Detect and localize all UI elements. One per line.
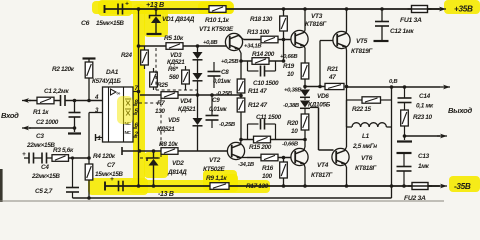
transistor VT5 — [346, 9, 348, 31]
svg-text:1мк: 1мк — [418, 163, 430, 170]
svg-text:КТ819Г: КТ819Г — [351, 48, 373, 55]
wire R14 row — [241, 60, 252, 62]
resistor R21 — [325, 83, 344, 89]
capacitor C9 — [211, 95, 213, 115]
wire input bottom row — [29, 127, 75, 129]
svg-text:VD4: VD4 — [180, 98, 192, 105]
wire R3 to R4 node — [69, 157, 90, 159]
resistor R6 — [182, 70, 190, 84]
resistor R4 — [85, 164, 93, 180]
ground input — [74, 128, 76, 132]
svg-text:VT5: VT5 — [356, 38, 368, 45]
svg-text:VT4: VT4 — [317, 162, 329, 169]
svg-text:+0,25В: +0,25В — [221, 59, 239, 65]
svg-text:Вход: Вход — [1, 111, 19, 120]
svg-text:15мк×15В: 15мк×15В — [96, 20, 124, 27]
node R21 VT5 base tie — [318, 85, 322, 89]
svg-text:560: 560 — [169, 74, 179, 81]
transistor VT1 — [225, 33, 242, 50]
wire feedback column — [88, 113, 90, 165]
transistor VT3 — [304, 9, 306, 31]
node VD3 top — [196, 44, 200, 48]
svg-text:∞: ∞ — [117, 91, 121, 97]
resistor R5 — [166, 43, 183, 50]
svg-text:+35В: +35В — [454, 5, 473, 14]
fuse FU1 — [412, 6, 428, 13]
svg-text:VT1 КТ503Е: VT1 КТ503Е — [199, 26, 234, 33]
svg-text:R24: R24 — [121, 52, 132, 59]
svg-text:КД521: КД521 — [157, 126, 175, 133]
capacitor C8 — [213, 62, 215, 71]
resistor R12 — [237, 98, 245, 112]
svg-text:C10 1500: C10 1500 — [253, 80, 279, 87]
wire R5 row — [139, 45, 167, 47]
svg-text:C1 2,2мк: C1 2,2мк — [44, 88, 69, 95]
node input bottom — [73, 126, 77, 130]
node R5 left — [137, 44, 141, 48]
svg-text:-34,1В: -34,1В — [238, 162, 255, 168]
capacitor C14 — [404, 87, 406, 98]
svg-text:R9 1,1к: R9 1,1к — [206, 175, 227, 182]
wire VT2 emitter row — [241, 157, 247, 159]
svg-text:R19: R19 — [283, 63, 295, 70]
resistor R2 — [85, 62, 93, 78]
svg-text:22мк×15В: 22мк×15В — [26, 142, 55, 149]
wire VT1 collector — [239, 36, 244, 40]
dashed link pins — [160, 98, 162, 158]
wire output row — [347, 86, 392, 88]
svg-text:R20: R20 — [287, 120, 299, 127]
DA1 internal glyphs — [125, 99, 131, 106]
svg-text:Выход: Выход — [448, 106, 472, 115]
node VD column row1 — [196, 93, 200, 97]
wire row pin8 — [140, 94, 161, 96]
capacitor C7 — [118, 181, 120, 192]
wire R18 node to R14 — [283, 40, 285, 62]
node top rail C12 — [380, 7, 384, 11]
resistor R10 — [209, 6, 226, 13]
node bottom rail VT4 — [303, 184, 307, 188]
svg-text:+: + — [125, 1, 129, 8]
zener VD2 — [153, 151, 155, 158]
highlight DA1 pins overlay — [117, 96, 133, 124]
svg-text:R22 15: R22 15 — [352, 106, 372, 113]
ground VD1 — [147, 33, 162, 35]
scan bottom edge — [0, 200, 444, 202]
arrow output — [405, 86, 441, 88]
resistor R14 — [252, 58, 269, 65]
node rail R4 — [87, 196, 91, 200]
dashed link R24 R25 — [155, 48, 157, 90]
node pin row — [239, 94, 243, 98]
svg-text:КД521: КД521 — [178, 106, 196, 113]
svg-text:C8: C8 — [221, 69, 229, 76]
svg-text:C4: C4 — [41, 164, 49, 171]
svg-text:C14: C14 — [419, 93, 431, 100]
svg-text:КТ502Е: КТ502Е — [203, 166, 225, 173]
svg-text:R3 5,6к: R3 5,6к — [53, 147, 74, 154]
svg-text:DA1: DA1 — [106, 69, 119, 76]
svg-text:0,В: 0,В — [389, 79, 398, 85]
wire ground return rail — [73, 197, 392, 199]
diode VD6a — [300, 90, 310, 97]
svg-text:C9: C9 — [212, 97, 220, 104]
wire -13V/-35V bottom rail — [105, 185, 440, 187]
wire R4 to rail — [88, 180, 90, 198]
svg-text:FU1 3А: FU1 3А — [400, 17, 422, 24]
wire R21 row — [305, 86, 325, 88]
node top rail to DA1 — [137, 7, 141, 11]
resistor R16 — [261, 154, 278, 161]
svg-text:R15 200: R15 200 — [249, 144, 272, 151]
arrow input bottom — [22, 127, 31, 129]
svg-text:47: 47 — [328, 74, 336, 81]
scan left edge — [0, 169, 3, 202]
svg-text:+34,1В: +34,1В — [244, 44, 262, 50]
node C2 top — [73, 99, 77, 103]
resistor R23 — [401, 110, 409, 126]
zener VD1 — [155, 9, 157, 16]
node top rail VT5 — [345, 7, 349, 11]
svg-text:К574УД1Б: К574УД1Б — [92, 78, 121, 85]
resistor R11 — [240, 61, 242, 79]
svg-text:+0,8В: +0,8В — [203, 40, 218, 46]
highlight +13V top band — [92, 1, 233, 14]
capacitor C6 — [117, 4, 119, 15]
node bottom rail VD2 — [152, 184, 156, 188]
svg-text:C12 1мк: C12 1мк — [390, 28, 414, 35]
terminal tick C7 left — [104, 182, 106, 191]
resistor R13 — [261, 36, 278, 43]
svg-text:-13 В: -13 В — [158, 191, 174, 198]
resistor R24 — [141, 50, 149, 65]
wire VT5 emitter — [345, 47, 348, 50]
wire row pin2 — [122, 150, 161, 152]
svg-text:R18 130: R18 130 — [250, 16, 273, 23]
svg-text:КТ818Г: КТ818Г — [355, 165, 377, 172]
svg-text:R25: R25 — [157, 82, 168, 89]
node bottom rail DA1 column — [137, 184, 141, 188]
svg-text:C13: C13 — [418, 153, 430, 160]
node top rail VD1 — [154, 7, 158, 11]
svg-text:L1: L1 — [362, 133, 370, 140]
wire input row — [29, 100, 37, 102]
node bottom rail C13 — [402, 184, 406, 188]
svg-text:Д814Д: Д814Д — [167, 169, 187, 176]
svg-text:VD5: VD5 — [168, 117, 180, 124]
resistor R17 — [283, 158, 285, 163]
svg-text:22мк×15В: 22мк×15В — [31, 173, 60, 180]
svg-text:100: 100 — [262, 173, 273, 180]
resistor R3 — [52, 155, 69, 162]
ground R23 — [397, 140, 412, 142]
svg-text:15мк×15В: 15мк×15В — [95, 171, 123, 178]
svg-text:C7: C7 — [107, 162, 115, 169]
resistor R22 — [347, 99, 363, 101]
svg-text:R7: R7 — [157, 100, 165, 107]
node top rail R18 — [282, 7, 286, 11]
wire VT5 collector — [345, 31, 348, 33]
svg-text:-0,66В: -0,66В — [282, 142, 299, 148]
highlight zener VD2 area — [144, 152, 168, 178]
svg-text:0,01мк: 0,01мк — [209, 107, 228, 113]
svg-text:C3: C3 — [36, 133, 44, 140]
node VT2 collector — [239, 138, 243, 142]
svg-text:R10 1,1к: R10 1,1к — [205, 17, 230, 24]
svg-text:VT3: VT3 — [311, 13, 323, 20]
resistor R20 — [301, 114, 309, 130]
wire +13V/+35V top rail — [104, 8, 440, 10]
wire DA1 supply column — [138, 9, 140, 92]
svg-text:+0,66В: +0,66В — [280, 54, 298, 60]
ground C12 — [374, 40, 389, 42]
capacitor C13 — [403, 153, 405, 166]
op-amp DA1 box — [103, 87, 134, 142]
wire VT5 base — [319, 41, 321, 87]
wire VT4 emitter — [304, 164, 305, 167]
svg-text:0,1 мк: 0,1 мк — [416, 103, 434, 110]
svg-text:NC: NC — [125, 130, 132, 135]
svg-text:2,5 мкГн: 2,5 мкГн — [352, 143, 377, 150]
highlight zener VD1 area — [144, 8, 168, 37]
svg-text:R12 47: R12 47 — [248, 102, 268, 109]
svg-text:+: + — [22, 151, 26, 158]
svg-text:R21: R21 — [327, 66, 339, 73]
capacitor C2 — [74, 101, 76, 113]
svg-text:R23 10: R23 10 — [413, 114, 433, 121]
wire VT4 collector — [304, 147, 305, 150]
wire R20 to node — [304, 130, 306, 140]
svg-text:R6*: R6* — [168, 66, 178, 73]
transistor VT2 — [227, 142, 244, 159]
node +0.38V — [303, 85, 307, 89]
svg-text:VT6: VT6 — [361, 155, 373, 162]
wire to VT3 base — [278, 39, 291, 41]
capacitor C12 — [381, 9, 383, 21]
wire VT1 emitter — [239, 49, 241, 54]
wire output node column — [346, 87, 348, 128]
svg-text:R16: R16 — [262, 165, 274, 172]
svg-text:VD6: VD6 — [317, 93, 329, 100]
wire R15 row — [241, 139, 254, 141]
resistor R2 ground bar — [83, 57, 96, 59]
svg-text:C11 1500: C11 1500 — [256, 114, 282, 121]
node VT3 base — [282, 38, 286, 42]
svg-text:-0,38В: -0,38В — [283, 103, 300, 109]
node row2 supply column — [138, 149, 142, 153]
diode VD3 — [197, 46, 199, 52]
node bottom rail ground link — [390, 184, 394, 188]
node output return — [404, 126, 406, 140]
resistor R19 — [301, 63, 309, 79]
ground C13 — [397, 152, 412, 154]
svg-text:VT2: VT2 — [209, 157, 221, 164]
resistor R9 — [210, 183, 229, 190]
node output L1 right — [390, 85, 394, 89]
diode VD6b — [300, 101, 310, 108]
svg-text:R4 120к: R4 120к — [93, 153, 116, 160]
svg-text:VD3: VD3 — [170, 52, 182, 59]
wire L1 verticals — [346, 100, 348, 127]
arrow input top — [22, 100, 31, 102]
svg-text:-35В: -35В — [454, 182, 471, 191]
wire VT3 emitter down — [304, 46, 305, 48]
op-amp DA1 symbol — [111, 89, 117, 95]
wire VT6 emitter — [345, 164, 347, 167]
node top rail VT3 — [303, 7, 307, 11]
svg-text:КД521: КД521 — [167, 59, 185, 66]
svg-text:+0,38В: +0,38В — [284, 88, 302, 94]
svg-text:-0,25В: -0,25В — [219, 122, 236, 128]
wire VT2 collector up — [240, 140, 242, 145]
highlight C7 / -13V bottom band — [88, 178, 148, 195]
node R3 R4 — [87, 156, 91, 160]
svg-text:C5 2,7: C5 2,7 — [35, 188, 53, 195]
svg-text:R13 100: R13 100 — [247, 29, 270, 36]
node row2 VD2 — [152, 149, 156, 153]
resistor R25 — [150, 72, 158, 87]
tick row pin2 — [121, 147, 123, 155]
resistor R7 — [161, 92, 178, 99]
resistor R15 — [254, 136, 271, 143]
svg-text:R14 200: R14 200 — [252, 51, 275, 58]
resistor R8 — [161, 148, 178, 155]
svg-text:КТ816Г: КТ816Г — [305, 21, 327, 28]
capacitor C10 loop — [247, 61, 249, 71]
resistor R18 — [283, 9, 285, 16]
wire output down column — [391, 127, 393, 186]
node bottom rail R17 — [282, 184, 286, 188]
svg-text:КТ817Г: КТ817Г — [311, 172, 333, 179]
terminal tick C6 left — [104, 5, 106, 13]
highlight R9 area — [203, 170, 237, 191]
wire R2 column — [88, 78, 90, 101]
svg-text:R5 10к: R5 10к — [164, 35, 184, 42]
svg-text:R2 120к: R2 120к — [52, 66, 75, 73]
node bottom rail VT6 — [345, 184, 349, 188]
capacitor C11 loop — [247, 124, 249, 140]
capacitor C5 — [71, 156, 74, 159]
node output C14 — [403, 85, 407, 89]
transistor VT6 — [332, 148, 349, 165]
arrow output return — [405, 135, 441, 137]
capacitor C1 — [60, 95, 62, 106]
svg-text:130: 130 — [155, 108, 165, 115]
svg-text:0,01мк: 0,01мк — [213, 79, 232, 85]
svg-text:VD1 Д814Д: VD1 Д814Д — [162, 16, 195, 23]
arrow -35V — [439, 185, 447, 187]
inductor L1 — [347, 126, 353, 128]
svg-text:R8 10к: R8 10к — [159, 141, 179, 148]
svg-text:VD2: VD2 — [172, 160, 184, 167]
node -0.66V — [303, 138, 307, 142]
wire to VT4 base — [278, 157, 291, 159]
node R17 top — [282, 156, 286, 160]
diode VD5 — [197, 95, 199, 118]
svg-text:10: 10 — [287, 71, 294, 78]
wire VD6 to VT6 base tie — [310, 107, 319, 109]
svg-text:R1 1к: R1 1к — [33, 109, 49, 116]
fuse FU2 — [412, 183, 428, 190]
svg-text:C2 1000: C2 1000 — [36, 119, 59, 126]
arrow +35V — [438, 8, 446, 10]
highlight R10 area — [198, 2, 234, 14]
svg-text:10: 10 — [291, 128, 298, 135]
transistor VT4 — [291, 148, 308, 165]
wire VT6 collector — [345, 147, 347, 150]
highlight vertical supply wire at DA1 — [133, 4, 145, 190]
wire R12 down — [240, 112, 242, 140]
resistor R1 — [37, 97, 54, 104]
highlight -35V label — [449, 176, 480, 192]
diode VD4 — [193, 73, 203, 80]
highlight +35V label — [444, 0, 480, 14]
svg-text:C6: C6 — [81, 20, 90, 27]
svg-text:R11 47: R11 47 — [248, 88, 267, 95]
